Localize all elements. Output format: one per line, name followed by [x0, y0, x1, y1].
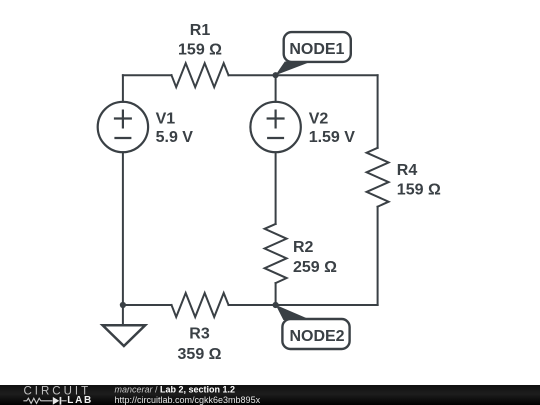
label R1 value	[178, 22, 222, 59]
ground	[103, 305, 146, 346]
svg-text:159 Ω: 159 Ω	[178, 42, 222, 59]
node label NODE2 callout	[276, 305, 350, 349]
node NODE1 junction dot	[273, 72, 279, 78]
wire middle rail above V2	[275, 75, 277, 102]
wire middle rail below R2	[275, 283, 277, 305]
svg-text:NODE1: NODE1	[289, 41, 344, 58]
svg-text:259 Ω: 259 Ω	[293, 259, 337, 276]
label R2 value	[293, 239, 337, 276]
wire top-left from left rail to R1	[123, 74, 172, 76]
resistor R2	[265, 224, 287, 283]
resistor R3	[172, 293, 229, 317]
wire middle rail V2 to R2	[275, 152, 277, 224]
svg-text:http://circuitlab.com/cgkk6e3m: http://circuitlab.com/cgkk6e3mb895x	[115, 395, 261, 405]
svg-text:mancerar / Lab 2, section 1.2: mancerar / Lab 2, section 1.2	[115, 385, 236, 395]
svg-text:R2: R2	[293, 239, 314, 256]
voltage source V1	[98, 102, 148, 152]
resistor R1	[172, 63, 229, 87]
label R3 value	[178, 325, 222, 363]
svg-text:5.9 V: 5.9 V	[156, 129, 194, 146]
svg-text:V2: V2	[309, 111, 329, 128]
wire bottom-left from ground node to R3	[123, 304, 172, 306]
wire top from node1 to right rail	[276, 74, 378, 76]
svg-text:V1: V1	[156, 111, 176, 128]
svg-text:R1: R1	[190, 22, 211, 39]
label R4 value	[397, 162, 441, 199]
resistor R4	[367, 148, 389, 207]
node label NODE1 callout	[275, 32, 350, 75]
wire right rail lower	[377, 207, 379, 305]
svg-text:NODE2: NODE2	[289, 328, 344, 345]
wire left rail lower	[122, 152, 124, 305]
wire bottom from R3 to node2	[229, 304, 276, 306]
wire top from R1 to node1 junction	[229, 74, 276, 76]
svg-text:159 Ω: 159 Ω	[397, 182, 441, 199]
CircuitLab logo resistor-diode glyph	[23, 398, 66, 403]
svg-text:359 Ω: 359 Ω	[178, 346, 222, 363]
node junction dot bottom-left	[120, 302, 126, 308]
svg-text:LAB: LAB	[67, 395, 93, 405]
svg-text:R4: R4	[397, 162, 418, 179]
wire right rail upper	[377, 75, 379, 148]
svg-text:1.59 V: 1.59 V	[309, 129, 356, 146]
voltage source V2	[250, 102, 300, 152]
svg-text:R3: R3	[189, 325, 210, 342]
wire left rail upper	[122, 75, 124, 102]
node NODE2 junction dot	[273, 302, 279, 308]
label V2 value	[309, 111, 356, 146]
label V1 value	[156, 111, 194, 146]
wire bottom from node2 to right rail	[276, 304, 378, 306]
